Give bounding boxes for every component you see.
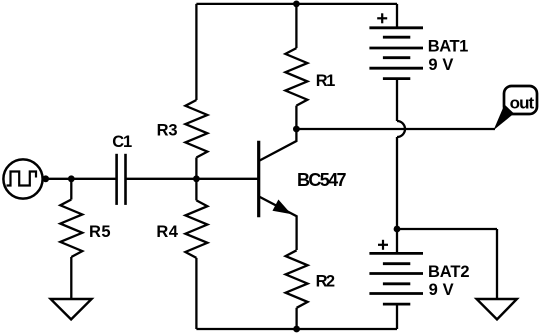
junction dot: top rail / R1 bbox=[293, 1, 300, 8]
svg-text:BAT1: BAT1 bbox=[428, 38, 469, 56]
wire: top rail down to R3 bbox=[195, 4, 197, 100]
ground (input side) bbox=[51, 299, 92, 319]
square-wave symbol inside V1 bbox=[7, 172, 37, 186]
wire: V1 output to C1 left plate bbox=[43, 178, 117, 180]
svg-text:R2: R2 bbox=[316, 273, 336, 291]
wire: output node to out tag bbox=[296, 128, 495, 130]
battery BAT2 plus sign bbox=[378, 244, 388, 246]
junction dot: base node (R3/R4 divider tap) bbox=[193, 175, 200, 182]
resistor R2 bbox=[286, 250, 308, 307]
wire: R5 to ground bbox=[70, 257, 72, 299]
wire: R2 to bottom rail bbox=[295, 308, 297, 329]
wire: BAT2 - terminal to bottom rail bbox=[396, 304, 398, 329]
wire: hop down to BAT2 + node bbox=[396, 137, 398, 229]
wire: down to output-side ground bbox=[496, 229, 498, 299]
resistor R4 bbox=[185, 200, 207, 258]
wire: R1 to collector node bbox=[295, 106, 297, 129]
transistor Q1 emitter lead bbox=[259, 196, 297, 250]
svg-text:9 V: 9 V bbox=[428, 56, 453, 74]
battery BAT1 plus sign bbox=[377, 17, 387, 19]
wire: midpoint node down to BAT2 + terminal bbox=[396, 229, 398, 253]
wire: top rail bbox=[196, 3, 397, 5]
svg-text:out: out bbox=[510, 93, 535, 112]
svg-text:R5: R5 bbox=[89, 223, 111, 241]
transistor Q1 BC547 base bar bbox=[257, 141, 260, 218]
junction dot: V1 output terminal bbox=[42, 175, 49, 182]
junction dot: R2 / bottom rail bbox=[293, 326, 300, 333]
ground (supply midpoint) bbox=[477, 299, 517, 319]
wire hop over output wire bbox=[397, 121, 405, 137]
wire: C1 right plate to base node bbox=[126, 178, 259, 180]
battery BAT1 plates bbox=[369, 26, 423, 29]
signal source V1 (square-wave generator) bbox=[3, 159, 42, 198]
resistor R1 bbox=[285, 48, 307, 106]
svg-text:R1: R1 bbox=[316, 72, 336, 90]
resistor R5 bbox=[60, 200, 82, 258]
wire: input node down to R5 bbox=[70, 179, 72, 200]
svg-text:R4: R4 bbox=[156, 223, 178, 241]
svg-text:BAT2: BAT2 bbox=[428, 263, 470, 281]
transistor Q1 collector lead bbox=[259, 129, 297, 161]
svg-text:BC547: BC547 bbox=[297, 170, 347, 190]
capacitor C1 plates bbox=[115, 154, 118, 205]
wire: base node down to R4 bbox=[195, 179, 197, 201]
svg-text:C1: C1 bbox=[112, 133, 132, 151]
out tag bubble bbox=[504, 86, 537, 114]
junction dot: BAT1/BAT2 midpoint node bbox=[394, 226, 401, 233]
wire: bottom rail bbox=[196, 328, 397, 330]
svg-text:R3: R3 bbox=[157, 122, 178, 140]
resistor R3 bbox=[185, 100, 207, 158]
wire: BAT1 - terminal down to hop bbox=[396, 79, 398, 121]
out tag tail bbox=[494, 105, 515, 131]
junction dot: collector / output node bbox=[293, 126, 300, 133]
wire: R3 to base node bbox=[195, 158, 197, 179]
wire: top rail down to BAT1 + terminal bbox=[396, 4, 398, 28]
svg-text:9 V: 9 V bbox=[429, 281, 454, 299]
transistor Q1 emitter arrow bbox=[274, 201, 289, 212]
wire: R4 to bottom rail bbox=[195, 258, 197, 329]
wire: midpoint node to ground branch bbox=[397, 228, 497, 230]
battery BAT2 plates bbox=[369, 252, 423, 255]
junction dot: R5 tap on input node bbox=[68, 175, 75, 182]
wire: top rail down to R1 bbox=[295, 4, 297, 48]
